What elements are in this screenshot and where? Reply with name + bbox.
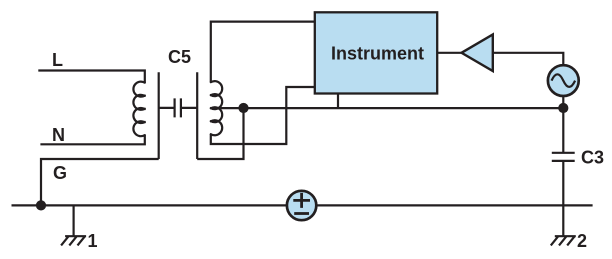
wire shield right to node: [197, 108, 243, 159]
source V1 plus sign: [293, 193, 310, 208]
node junction dot A: [238, 103, 248, 113]
svg-text:G: G: [53, 163, 67, 183]
wire secondary top to instrument: [211, 22, 315, 83]
capacitor C5 lead right: [181, 107, 197, 109]
source V1 minus sign: [294, 212, 309, 215]
svg-text:C3: C3: [581, 148, 604, 168]
source V1 noise: [287, 191, 316, 220]
shield plate right: [196, 72, 198, 159]
svg-text:2: 2: [577, 231, 587, 251]
wire N line: [40, 135, 144, 144]
transformer T1 primary winding: [133, 82, 144, 137]
buffer amplifier A1: [462, 35, 493, 72]
wire center tap rail: [211, 107, 564, 109]
transformer T1 secondary winding: [211, 81, 222, 135]
node junction dot B: [558, 103, 568, 113]
capacitor C5 plates: [175, 98, 181, 117]
svg-text:N: N: [52, 125, 65, 145]
wire ground 1 stub: [72, 205, 74, 235]
wire buffer to source: [493, 53, 564, 65]
svg-text:L: L: [52, 50, 63, 70]
source V2 sine symbol: [552, 74, 576, 87]
wire ground rail: [12, 204, 593, 206]
wire node B to C3: [562, 108, 564, 153]
wire C3 to ground 2: [562, 161, 564, 236]
wire G to shield: [41, 159, 159, 205]
wire instrument to buffer: [437, 52, 461, 54]
source V2 sine generator: [548, 65, 579, 96]
ground 1 symbol: [61, 236, 86, 245]
wire instrument bottom stub: [337, 94, 339, 109]
wire source to node B: [562, 96, 564, 108]
capacitor C5 lead left: [159, 107, 175, 109]
svg-text:Instrument: Instrument: [331, 43, 424, 63]
wire secondary bottom to instrument: [211, 87, 315, 144]
wire L line: [38, 71, 145, 83]
svg-text:C5: C5: [168, 47, 191, 67]
shield plate left: [158, 72, 160, 159]
instrument box U1: [315, 12, 437, 93]
svg-text:1: 1: [88, 231, 98, 251]
node junction dot G: [36, 200, 46, 210]
ground 2 symbol: [551, 236, 576, 245]
capacitor C3 plates: [552, 153, 575, 161]
